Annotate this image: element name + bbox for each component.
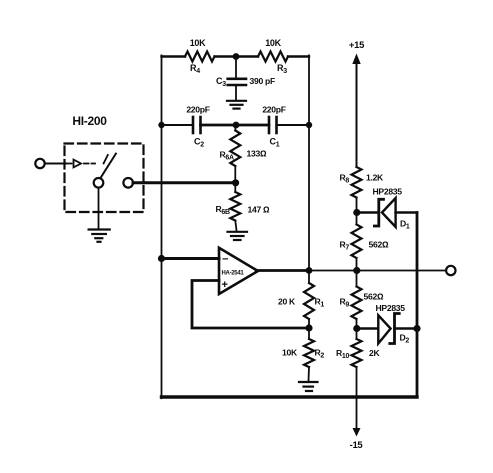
wire: switch output to R6 node (input line): [133, 181, 236, 184]
switch drive arrow (dashed): [66, 160, 95, 168]
wire: junction to D2 anode: [357, 327, 379, 330]
svg-text:562Ω: 562Ω: [369, 240, 389, 250]
svg-text:C2: C2: [194, 137, 204, 149]
resistor R4: [185, 52, 215, 62]
wire: pole circle down to ground: [98, 188, 100, 228]
wire: top rail from R3 to right corner: [288, 55, 309, 57]
wire: R9 bottom to D2 junction: [356, 319, 358, 339]
svg-text:HP2835: HP2835: [376, 303, 406, 313]
diode D1 (Schottky, pointing left): [374, 198, 395, 227]
node: inverting input junction on left line: [158, 255, 165, 262]
svg-text:20 K: 20 K: [278, 297, 296, 307]
wire: C1 right to right rail: [277, 124, 310, 126]
node: center junction C2/C1/R6A: [233, 122, 240, 129]
svg-text:147 Ω: 147 Ω: [248, 205, 271, 215]
capacitor C3: [228, 57, 246, 100]
svg-text:R6B: R6B: [216, 204, 230, 216]
wire: R7 bottom to output junction: [356, 258, 358, 287]
svg-text:+: +: [222, 279, 228, 291]
wire: D2 cathode to diode rail: [395, 327, 418, 330]
node: output junction at x=357: [353, 267, 360, 274]
resistor R3: [258, 52, 288, 62]
resistor R1: [304, 283, 314, 319]
node: output junction at x=309: [306, 267, 313, 274]
resistor R8: [352, 167, 362, 198]
resistor R10: [352, 339, 362, 367]
svg-text:D1: D1: [400, 219, 410, 231]
svg-text:562Ω: 562Ω: [364, 292, 384, 302]
svg-text:HI-200: HI-200: [72, 114, 107, 128]
resistor R2: [304, 339, 314, 367]
capacitor C2: [193, 117, 201, 133]
wire: right vertical line x=309 top rail to output: [308, 55, 310, 270]
resistor R7: [352, 225, 362, 259]
switch blade tick: [104, 155, 108, 163]
wire: R6B bottom to ground: [235, 221, 236, 231]
ground below C3: [227, 101, 246, 109]
ground below switch: [89, 230, 110, 242]
wire: diode rail down right side: [416, 213, 419, 398]
svg-text:R10: R10: [336, 348, 349, 360]
node: D2/diode-rail junction: [413, 325, 420, 332]
switch output circle: [123, 178, 133, 188]
svg-text:R9: R9: [340, 297, 350, 309]
wire: R1 bottom to feedback junction: [308, 319, 310, 339]
ground below R6B: [228, 232, 248, 240]
diode D2 (Schottky, pointing right): [378, 314, 399, 344]
svg-text:10K: 10K: [190, 38, 206, 48]
wire: output line to output terminal: [357, 270, 446, 272]
wire: input terminal to box: [45, 163, 66, 165]
resistor R6A: [230, 131, 240, 167]
svg-text:220pF: 220pF: [262, 105, 285, 115]
svg-text:R7: R7: [340, 240, 350, 252]
node: R6A/R6B/input junction: [232, 179, 239, 186]
output terminal circle: [446, 266, 455, 275]
op-amp U1 HA-2541: [219, 248, 258, 294]
power arrow +15: [352, 54, 360, 65]
svg-text:−: −: [222, 254, 228, 266]
wire: junction to D1 cathode: [357, 211, 378, 214]
node: top center junction: [233, 53, 240, 60]
resistor R6B: [230, 192, 240, 221]
wire: R2 bottom to ground: [308, 367, 311, 381]
wire: center node down to R6A: [234, 125, 236, 131]
node: R8/R7/D1 junction: [353, 209, 360, 216]
svg-text:220pF: 220pF: [186, 105, 209, 115]
svg-text:HP2835: HP2835: [373, 187, 403, 197]
wire: second rail y=125 left segment: [162, 124, 194, 126]
svg-text:10K: 10K: [282, 348, 298, 358]
node: R9/R10/D2 junction: [353, 325, 360, 332]
wire: R6A bottom to input node: [234, 166, 236, 183]
svg-text:C1: C1: [270, 137, 280, 149]
wire: D1 anode to diode rail: [396, 211, 417, 214]
node: C1 right junction: [306, 122, 312, 128]
wire: top rail y=56 from left corner to R4: [162, 55, 186, 57]
svg-text:10K: 10K: [265, 38, 281, 48]
svg-text:R3: R3: [277, 63, 287, 75]
wire: C2 right to center node: [201, 124, 237, 127]
capacitor C1: [269, 117, 277, 133]
input terminal circle: [35, 159, 44, 168]
switch block HI-200 dashed box: [65, 144, 144, 213]
wire: top rail between R4 and R3: [215, 55, 259, 57]
svg-text:R8: R8: [340, 173, 350, 185]
node: C2 left junction: [158, 122, 164, 128]
svg-text:R1: R1: [315, 297, 325, 309]
power arrow -15: [353, 428, 361, 437]
svg-text:1.2K: 1.2K: [366, 173, 384, 183]
svg-text:390 pF: 390 pF: [250, 76, 275, 86]
svg-text:133Ω: 133Ω: [247, 149, 267, 159]
resistor R9: [352, 287, 362, 320]
svg-text:R2: R2: [315, 348, 325, 360]
svg-text:C3: C3: [216, 76, 226, 88]
svg-text:D2: D2: [400, 333, 410, 345]
wire: R8 to D1 junction: [356, 198, 358, 225]
svg-text:R4: R4: [190, 63, 200, 75]
wire: left vertical feedback line x=161.5: [161, 55, 163, 398]
svg-text:2K: 2K: [369, 348, 380, 358]
wire: center node to C1: [236, 124, 269, 127]
wire: node to R6B: [234, 183, 236, 192]
svg-text:+15: +15: [349, 40, 365, 51]
wire: non-inverting feedback loop: [192, 281, 309, 329]
switch blade: [101, 154, 116, 178]
node: R1/R2 feedback junction: [305, 324, 312, 331]
wire: bottom feedback rail: [162, 395, 418, 398]
wire: inverting input line: [162, 257, 220, 260]
wire: output line to R7/R9 junction: [309, 270, 357, 272]
wire: x=309 output junction down to R1: [308, 271, 310, 284]
svg-text:HA-2541: HA-2541: [222, 271, 245, 277]
wire: +15 down to R8: [356, 62, 358, 167]
wire: op-amp output to first junction: [256, 269, 309, 272]
svg-text:-15: -15: [350, 440, 364, 451]
wire: R10 bottom down through rail to -15: [356, 367, 358, 429]
switch pole circle: [94, 178, 104, 188]
ground below R2: [299, 382, 318, 391]
